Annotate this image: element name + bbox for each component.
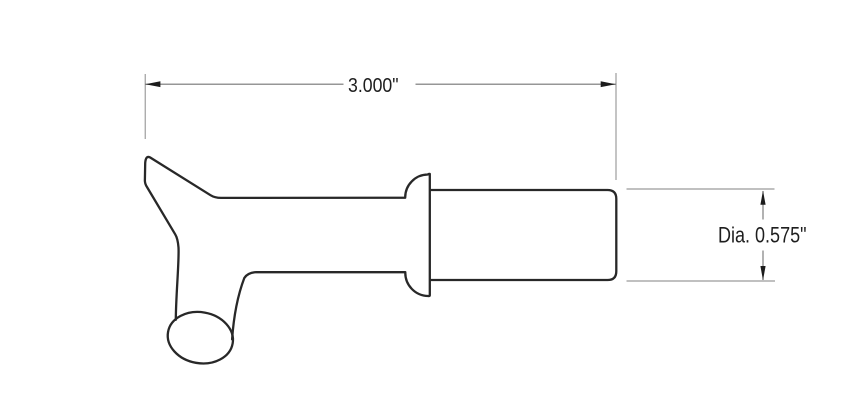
svg-text:3.000": 3.000" [348, 75, 399, 97]
arrowhead down [760, 266, 765, 280]
arrowhead right [601, 81, 616, 87]
dimension line Dia lower segment [762, 251, 764, 281]
dimension line 3.000" left segment [145, 83, 343, 85]
extension line left (3.000" dimension) [144, 74, 146, 139]
part outline: handle ball (ellipse) [164, 307, 237, 369]
part outline: handle + arm + flange profile [145, 157, 430, 339]
arrowhead up [760, 191, 765, 205]
extension line top (Dia dimension) [627, 188, 775, 190]
arrowhead left [145, 81, 160, 87]
svg-text:Dia. 0.575": Dia. 0.575" [718, 223, 807, 248]
extension line right (3.000" dimension) [615, 73, 617, 180]
dimension line Dia upper segment [762, 191, 764, 220]
part outline: shaft (cylinder) [430, 190, 616, 280]
extension line bottom (Dia dimension) [627, 280, 776, 282]
dimension line 3.000" right segment [416, 83, 617, 85]
